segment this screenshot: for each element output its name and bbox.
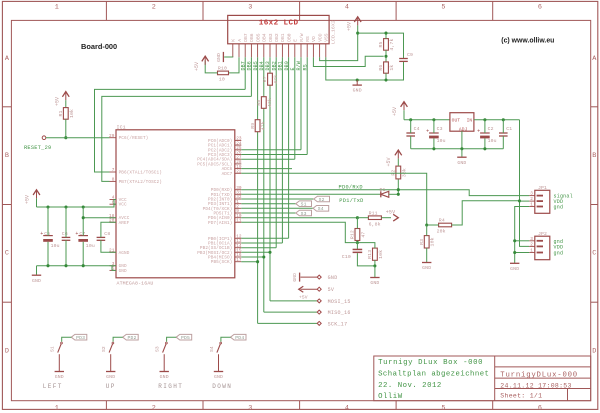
svg-text:C: C [5,250,9,258]
node C2 [483,118,486,121]
wire SCK [258,322,318,324]
wire PB3 row [241,251,270,253]
node at +5V LCD rail [356,32,359,35]
svg-text:D: D [592,348,596,356]
svg-text:C9: C9 [407,52,413,58]
svg-text:DB4: DB4 [262,33,268,42]
resistor R4 [439,223,452,227]
wire +5V rail to R5 and C9 [358,33,404,58]
svg-text:A: A [237,39,243,42]
node MISO [262,255,265,258]
node C6 top [64,205,67,208]
flag S4 [313,206,329,212]
title block row lines [495,366,591,368]
svg-text:JP1: JP1 [538,185,547,191]
node PD0/R2 [397,188,400,191]
LCD module box 16x2 [228,15,329,43]
wire JP2 gnd bottom [515,252,530,254]
svg-text:DB6: DB6 [249,33,255,42]
pad RESET_29 [42,136,46,140]
wire PD4 to flag S4 [241,207,313,209]
svg-text:PB6(XTAL1/TOSC1): PB6(XTAL1/TOSC1) [119,171,162,176]
node C7 top [82,205,85,208]
svg-text:10u: 10u [437,138,446,144]
+5V flag ISP [299,286,304,292]
wire PD0 to JP1 signal [398,190,529,196]
resistor R1 [63,108,68,120]
wire PB7 to DB6 column [102,96,252,181]
svg-text:B: B [592,152,596,160]
svg-text:gnd: gnd [554,205,564,211]
wire PC3 to RS column [241,154,307,156]
wire LCD pin A down to R10 [229,57,239,73]
capacitor C3 [429,132,439,134]
svg-text:GND: GND [106,374,115,380]
resistor R9 [255,120,260,132]
svg-text:GND: GND [292,273,298,282]
wire LCD VSS to gnd rail [326,57,404,80]
svg-text:C1: C1 [506,126,512,132]
wire C10 to gnd node [357,253,375,266]
svg-text:R5: R5 [378,41,384,47]
capacitor C4 [406,132,415,134]
svg-text:D: D [5,348,9,356]
svg-text:22. Nov. 2012: 22. Nov. 2012 [378,382,442,390]
switch S2 [123,334,139,340]
resistor R5 [384,39,389,51]
wire PD2 to flag S2 [241,198,313,200]
svg-text:6: 6 [538,4,542,12]
wire E vertical to PC4 row [294,57,296,159]
svg-text:+5V: +5V [346,22,352,31]
title block divider vertical [494,356,496,401]
svg-text:E: E [293,39,299,42]
ground at S3 [160,371,169,373]
wire battery input vertical [520,120,530,247]
svg-text:C2: C2 [488,126,494,132]
svg-text:+5V: +5V [194,62,200,71]
ground below LCD rail [356,80,358,85]
svg-text:PD7(AIN1): PD7(AIN1) [208,221,232,226]
wire JP1 gnd down [515,207,530,264]
svg-text:1k: 1k [389,65,395,71]
wire PD6 to R11/R12 node [241,217,357,219]
capacitor C7 [78,235,88,237]
svg-text:VDD: VDD [554,244,564,250]
wire regulator ADJ [461,131,463,149]
svg-text:47k: 47k [273,75,279,84]
resistor R11 [368,216,381,220]
wire DB4 vertical (through R8) [263,57,265,96]
svg-text:1: 1 [530,203,533,208]
svg-text:+5V: +5V [392,107,398,116]
svg-text:C6: C6 [62,231,68,237]
svg-text:C10: C10 [342,254,351,260]
frame row ticks left [2,106,11,108]
svg-text:gnd: gnd [554,251,564,257]
svg-text:+5V: +5V [386,157,392,166]
wire JP1 VDD [520,200,530,202]
wire R/W vertical to PC2 row [300,57,302,150]
ground at LCD pin K (rotated) [222,52,224,62]
svg-text:7: 7 [112,168,115,173]
wire VCC rail [37,200,117,208]
wire DB1 vertical to PB1 row [281,57,283,243]
svg-text:S2: S2 [101,346,107,352]
svg-text:R3: R3 [419,239,425,245]
supply +5V above LCD [354,17,361,22]
svg-text:LEFT: LEFT [43,383,63,390]
svg-text:+: + [426,128,429,134]
ground at S2 [106,371,115,373]
ground at S1 [55,371,64,373]
node C3 [432,118,435,121]
svg-text:17: 17 [236,258,242,263]
svg-text:C4: C4 [414,126,420,132]
wire R6 to gnd rail [385,73,387,80]
op IC1 box [116,130,235,278]
flag S2 [314,196,330,202]
svg-text:+5V: +5V [24,195,30,204]
svg-text:AREF: AREF [119,221,130,226]
svg-text:DB0: DB0 [286,33,292,42]
JP1 pins [529,195,535,197]
svg-text:2: 2 [152,4,156,12]
svg-text:D1: D1 [380,187,386,193]
capacitor C10 [356,243,358,250]
svg-text:S3: S3 [301,211,307,217]
wire ADC7 to divider [241,173,426,225]
wire D1 to node [389,193,399,195]
svg-text:4: 4 [345,405,349,413]
svg-text:33k: 33k [401,168,407,177]
wire C8 to AGND [101,240,116,252]
svg-text:GND: GND [510,266,519,272]
svg-text:8: 8 [112,178,115,183]
svg-text:2: 2 [152,405,156,413]
svg-text:DB5: DB5 [255,33,261,42]
wire DB5 vertical (through R9) [257,57,259,119]
svg-text:R/W: R/W [299,33,305,42]
svg-text:VCC: VCC [119,203,127,208]
svg-text:C5: C5 [44,231,50,237]
svg-text:SCK_17: SCK_17 [328,321,348,327]
svg-text:6: 6 [538,405,542,413]
svg-text:ATMEGA8-16AU: ATMEGA8-16AU [117,280,154,286]
svg-text:20k: 20k [437,229,446,235]
svg-text:R13: R13 [367,250,373,259]
wire MISO [264,311,317,313]
connector JP1 box [535,190,550,213]
wire MOSI [270,300,317,302]
node ADC7 divider [425,223,428,226]
svg-text:PC6(/RESET): PC6(/RESET) [119,136,149,141]
svg-text:47k: 47k [261,121,267,130]
svg-text:PD1/TxD: PD1/TxD [339,198,363,204]
svg-text:11: 11 [236,219,242,224]
svg-text:29: 29 [109,134,115,139]
node MOSI [268,251,271,254]
wire JP2 gnd top [515,240,530,242]
node contrast divider [384,55,387,58]
svg-text:+5V: +5V [299,295,308,301]
svg-text:VDD: VDD [317,33,323,42]
svg-text:GND: GND [328,275,338,281]
resistor R7 [268,73,273,85]
node C1 [502,118,505,121]
svg-text:R1: R1 [58,110,64,116]
capacitor C9 [399,58,408,60]
svg-text:PB7(XTAL2/TOSC2): PB7(XTAL2/TOSC2) [119,180,162,185]
wire PD0 [241,189,398,191]
node SCK [256,260,259,263]
supply +5V at R2 [395,150,402,155]
svg-text:S3: S3 [155,346,161,352]
svg-text:JP2: JP2 [538,231,547,237]
svg-text:VO: VO [311,36,317,42]
ground below R13 [374,266,376,277]
svg-text:GND: GND [422,265,431,271]
svg-text:IC1: IC1 [117,124,126,130]
wire DB0 vertical to PB0 row [288,57,290,238]
svg-text:LCD_16X2: LCD_16X2 [330,20,336,44]
svg-text:1: 1 [55,4,59,12]
svg-text:Sheet: 1/1: Sheet: 1/1 [500,393,542,400]
wire PD3 to flag S1 [241,203,295,205]
svg-text:3: 3 [530,237,533,242]
wire AVCC tap [83,217,116,219]
node R6 bottom [384,78,387,81]
frame column ticks bottom [105,401,107,410]
svg-text:GND: GND [370,280,379,286]
svg-text:GND: GND [160,374,169,380]
supply +5V at R10 [202,56,209,61]
wire GND pin 5 jog [112,266,116,271]
svg-text:R6: R6 [378,65,384,71]
regulator IC2 box [450,113,474,132]
flag S3 [296,210,312,216]
svg-text:1: 1 [55,405,59,413]
wire PD1 to D1 [241,193,381,195]
ground at S4 [214,371,223,373]
svg-text:GND: GND [55,374,64,380]
supply +5V at R1 [62,92,69,97]
svg-text:3: 3 [530,192,533,197]
node JP2 gnd bottom [513,251,516,254]
node JP2 gnd top [513,239,516,242]
ground at VCC rail [36,266,38,275]
capacitor C6 [62,236,71,238]
svg-text:+5V: +5V [55,97,61,106]
svg-text:(c) www.olliw.eu: (c) www.olliw.eu [501,38,554,45]
flag S1 [296,201,312,207]
title block outline [374,356,591,401]
IC1 left pins [110,137,117,139]
resistor R8 [261,97,266,109]
svg-text:Board-000: Board-000 [81,42,117,51]
svg-text:47k: 47k [267,98,273,107]
svg-text:GND: GND [353,88,362,94]
svg-text:R7: R7 [262,76,268,82]
svg-text:R2: R2 [391,170,397,176]
wire R3 to ground [426,248,428,262]
wire PD7 to R12 bottom node [241,222,357,242]
frame row ticks right [591,106,598,108]
svg-text:RS: RS [305,36,311,42]
wire DB2 vertical to PB2 row [275,57,277,247]
svg-text:R10: R10 [218,66,227,72]
svg-text:47: 47 [360,232,366,238]
node C7 bottom [82,264,85,267]
svg-text:DB3: DB3 [268,33,274,42]
wire R12 node to R13 [357,243,375,249]
IC1 right pins [235,139,242,141]
wire PB2 row [241,247,276,249]
svg-text:DB2: DB2 [274,33,280,42]
ground flag ISP [299,273,301,282]
wire R5 to R6 [385,50,387,62]
svg-text:TurnigyDLux-000: TurnigyDLux-000 [500,371,578,379]
node C3 bottom [432,147,435,150]
svg-text:MOSI_15: MOSI_15 [328,299,351,305]
svg-text:1: 1 [530,249,533,254]
supply +5V at VCC rail [33,190,40,195]
svg-text:C: C [592,250,596,258]
wire R4 to battery rail [452,201,520,225]
supply +5V right arrow [393,214,398,221]
svg-text:10: 10 [219,77,225,83]
wire LCD pin K to GND [224,56,233,58]
resistor R3 [424,236,429,248]
ground at JP2 [510,262,519,264]
capacitor C5 [43,235,53,237]
svg-text:+: + [75,231,78,237]
svg-text:+5V: +5V [386,210,395,216]
svg-text:C7: C7 [79,231,85,237]
svg-text:5V: 5V [328,287,335,293]
svg-text:10u: 10u [86,243,95,249]
wire PC2 to R/W column [241,149,301,151]
svg-text:S4: S4 [318,206,324,212]
wire R10 to +5V [205,61,217,73]
wire AREF to C8 [101,222,116,237]
wire DB7 vertical to PB6 line [244,57,246,89]
svg-text:PD4: PD4 [235,335,244,341]
svg-text:R9: R9 [250,123,256,129]
svg-text:+: + [40,231,43,237]
svg-text:22: 22 [236,170,242,175]
resistor R13 [373,248,378,260]
wire PB5 row [241,261,257,263]
node reset [64,136,67,139]
wire GND rail [37,265,117,267]
node R12 bottom [356,241,359,244]
svg-text:PB5(SCK): PB5(SCK) [211,260,233,265]
ground at regulator [461,149,463,157]
svg-text:R12: R12 [350,230,356,239]
node AVCC on C7 column [82,216,85,219]
svg-text:MISO_16: MISO_16 [328,310,351,316]
connector JP2 box [535,236,550,260]
resistor R6 [384,62,389,73]
svg-text:OlliW: OlliW [378,393,403,401]
svg-text:DOWN: DOWN [212,383,232,390]
svg-text:Schaltplan abgezeichnet: Schaltplan abgezeichnet [378,371,489,379]
LCD pin stubs [232,44,234,58]
svg-text:10u: 10u [51,243,60,249]
resistor R2 [396,166,401,179]
svg-text:PD3: PD3 [76,335,85,341]
wire R11 to +5V arrow [381,217,391,219]
node C5 bottom [46,264,49,267]
wire ADC6 row2 [241,168,292,170]
svg-text:GND: GND [119,269,127,274]
svg-text:2: 2 [530,197,533,202]
node C2 bottom [483,147,486,150]
svg-text:10k: 10k [430,237,436,246]
svg-text:16x2 LCD: 16x2 LCD [259,20,299,28]
wire VCC pin 6 [114,203,116,205]
svg-text:OUT: OUT [452,118,461,124]
svg-text:GND: GND [457,160,466,166]
svg-text:R11: R11 [369,210,378,216]
svg-text:AGND: AGND [119,251,130,256]
node C5 top [46,205,49,208]
svg-text:S1: S1 [301,202,307,208]
wire LCD VO to contrast divider [313,56,383,66]
svg-text:PD2: PD2 [128,335,137,341]
svg-text:R8: R8 [256,100,262,106]
wire PB6 to DB7 column [95,89,246,172]
svg-text:RIGHT: RIGHT [158,383,183,390]
resistor R12 [355,229,360,241]
svg-text:10k: 10k [378,250,384,259]
svg-text:10k: 10k [69,109,75,118]
svg-text:K: K [231,39,237,42]
node PD1/D1 [397,193,400,196]
svg-text:R4: R4 [439,218,445,224]
capacitor C1 [499,132,508,134]
supply +5V at regulator [401,102,408,107]
svg-text:+: + [477,128,480,134]
svg-text:5: 5 [441,405,445,413]
switch S4 [231,334,247,340]
wire PC4 to E column [241,158,294,160]
svg-text:4: 4 [345,4,349,12]
svg-text:S2: S2 [319,197,325,203]
node JP1 VDD [518,199,521,202]
wire PD5 to flag S3 [241,212,295,214]
svg-text:10u: 10u [488,138,497,144]
switch S1 [71,334,87,340]
wire DB6 vertical to PB7 line [250,57,252,96]
svg-text:RESET_29: RESET_29 [24,145,51,151]
capacitor C2 [480,132,490,134]
svg-text:ADC7: ADC7 [222,172,233,177]
resistor R10 [218,71,229,75]
svg-text:4,7k: 4,7k [389,38,395,50]
wire reset to IC pin 29 [46,137,110,139]
node C4 [409,118,412,121]
node R5 top [384,32,387,35]
svg-text:Turnigy DLux Box -000: Turnigy DLux Box -000 [378,359,483,367]
frame column ticks top [105,1,107,20]
svg-text:B: B [5,152,9,160]
svg-text:S4: S4 [209,346,215,352]
svg-text:UP: UP [106,383,116,390]
wire PB0 row [241,237,288,239]
svg-text:GND: GND [32,278,41,284]
